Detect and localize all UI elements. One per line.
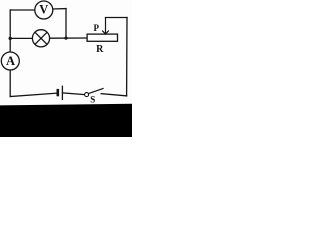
- rheostat slider arrow P: [102, 18, 109, 35]
- wire: junction to lamp: [10, 37, 32, 39]
- switch S: pivot circle: [85, 93, 89, 97]
- svg-text:A: A: [6, 54, 15, 68]
- svg-text:S: S: [90, 95, 95, 105]
- battery B1: long thin plate (positive): [61, 86, 63, 100]
- wire: switch to bottom-right corner: [101, 94, 126, 96]
- wire: voltmeter tap vertical down to lamp-resistor wire: [65, 9, 67, 39]
- ammeter A1: [1, 52, 19, 70]
- lamp L1: [32, 30, 49, 47]
- wire: voltmeter right lead: [52, 8, 66, 10]
- node J2 (voltmeter tap on lamp-resistor wire): [64, 37, 67, 40]
- wire: right vertical down to bottom wire: [126, 18, 128, 96]
- wire: lamp to resistor left end: [50, 37, 87, 39]
- svg-text:V: V: [39, 3, 48, 17]
- switch S: lever: [89, 88, 104, 93]
- wire: bottom left horizontal (corner to battery): [10, 93, 56, 96]
- node J1 (left vertical / lamp branch): [9, 37, 12, 40]
- resistor R (rheostat body): [87, 34, 117, 41]
- svg-text:P: P: [94, 23, 100, 33]
- svg-text:R: R: [96, 44, 104, 55]
- wire: top-left horizontal (corner to voltmeter): [10, 9, 35, 11]
- battery B1: short thick plate (negative): [56, 89, 59, 96]
- wire: battery to switch: [63, 93, 85, 95]
- wire: left vertical lower (ammeter bottom to corner): [9, 70, 11, 97]
- wire: left vertical upper (corner to ammeter top): [9, 10, 11, 52]
- voltmeter V1: [35, 1, 53, 19]
- paper background: [0, 0, 132, 137]
- wire: slider connector horizontal: [106, 17, 128, 19]
- black censor bar at bottom: [0, 104, 132, 137]
